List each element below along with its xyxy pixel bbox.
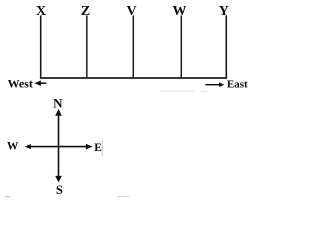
svg-text:Z: Z [81, 4, 90, 19]
faint line artifact under east arrow [200, 90, 207, 92]
pole X [40, 15, 42, 78]
pole V [132, 15, 134, 78]
svg-text:W: W [173, 4, 187, 19]
svg-text:E: E [94, 142, 102, 154]
pole W [180, 15, 182, 78]
faint dash artifact bottom-middle [117, 196, 130, 198]
svg-text:Y: Y [219, 4, 229, 19]
cursor artifact right of E [101, 140, 103, 156]
baseline (ground line) [40, 77, 227, 79]
svg-text:S: S [56, 183, 63, 197]
east arrow [205, 82, 224, 87]
svg-text:East: East [227, 78, 248, 90]
svg-text:W: W [7, 140, 19, 152]
pole Z [86, 15, 88, 78]
west arrow [35, 80, 47, 86]
svg-text:V: V [127, 4, 137, 19]
faint dash artifact bottom-left [5, 196, 10, 198]
compass west-east arrow [25, 144, 93, 150]
svg-text:N: N [53, 95, 63, 110]
compass north-south arrow [55, 109, 62, 182]
svg-text:West: West [8, 77, 33, 91]
pole Y [225, 15, 227, 78]
faint line artifact near east [160, 90, 194, 92]
